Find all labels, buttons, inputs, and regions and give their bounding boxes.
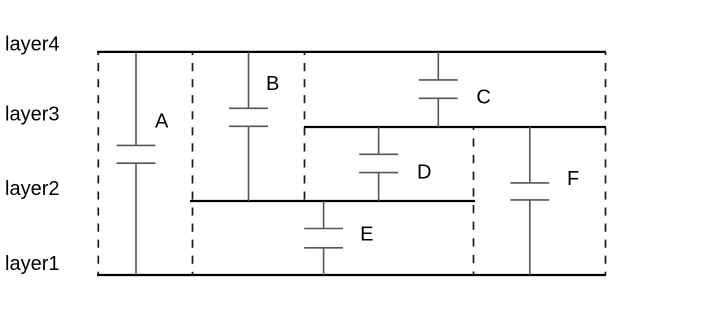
- layer1 rail (bottom solid line): [97, 274, 606, 276]
- svg-text:F: F: [567, 168, 579, 190]
- dashed region boundary x=473 (layer3 to layer1): [473, 127, 475, 275]
- capacitor B (layer4 to layer2): [229, 52, 268, 201]
- capacitor A (layer4 to layer1): [117, 52, 156, 275]
- dashed region boundary x=192 (layer4 to layer1): [192, 52, 194, 275]
- svg-text:layer4: layer4: [5, 34, 59, 56]
- svg-text:layer1: layer1: [5, 253, 59, 275]
- layer4 rail (top solid line): [97, 51, 606, 53]
- svg-text:D: D: [417, 161, 431, 183]
- svg-text:B: B: [266, 73, 279, 95]
- dashed region boundary x=98 (layer4 to layer1): [97, 52, 99, 275]
- svg-text:E: E: [360, 223, 373, 245]
- svg-text:C: C: [476, 86, 490, 108]
- dashed region boundary x=605.5 (layer4 to layer1): [605, 52, 607, 275]
- layer3 rail (middle solid line, right part): [304, 126, 606, 128]
- capacitor E (layer2 to layer1): [304, 201, 343, 275]
- layer2 rail (middle solid line, left part): [190, 200, 475, 202]
- svg-text:layer2: layer2: [5, 178, 59, 200]
- svg-text:layer3: layer3: [5, 103, 59, 125]
- dashed region boundary x=304 (layer4 to layer2): [304, 52, 306, 201]
- capacitor C (layer4 to layer3): [419, 52, 458, 127]
- svg-text:A: A: [155, 111, 169, 133]
- capacitor D (layer3 to layer2): [359, 127, 398, 201]
- capacitor F (layer3 to layer1): [510, 127, 549, 275]
